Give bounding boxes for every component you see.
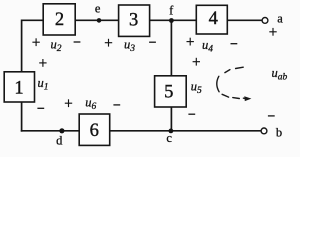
polarity - of u4 (231, 43, 238, 45)
polarity + of u1 (39, 62, 46, 64)
element box 4 (196, 5, 227, 34)
polarity - of u3 (149, 41, 156, 43)
polarity + of u2 (32, 41, 39, 43)
svg-text:4: 4 (209, 9, 218, 29)
polarity - of u5 (188, 113, 195, 115)
wire element 1 down to bottom rail (21, 102, 23, 131)
svg-text:c: c (166, 131, 172, 145)
wire element 2 to element 3 through node e (75, 19, 118, 21)
element box 6 (79, 114, 110, 145)
node e junction dot (97, 18, 102, 23)
terminal b open circle (261, 128, 267, 134)
wire element 6 to terminal b through node c (110, 130, 262, 132)
svg-text:d: d (56, 133, 63, 147)
polarity - of u6 (113, 104, 120, 106)
wire top-left corner to element 2 (22, 20, 44, 72)
polarity + of u6 (65, 102, 72, 104)
svg-text:5: 5 (164, 82, 173, 102)
wire bottom rail d to element 6 (22, 130, 80, 132)
svg-text:6: 6 (90, 121, 99, 141)
node f junction dot (169, 18, 174, 23)
polarity + of u4 (187, 41, 194, 43)
element box 2 (43, 4, 75, 35)
dashed arrow of voltage uab (217, 67, 246, 98)
polarity - of u2 (74, 41, 81, 43)
polarity + of terminal a (269, 31, 276, 33)
wire element 4 to terminal a (227, 19, 262, 21)
arrowhead of uab dashed arrow (244, 96, 251, 101)
polarity - of u1 (37, 107, 44, 109)
polarity + of u3 (105, 42, 112, 44)
svg-text:2: 2 (55, 10, 64, 30)
svg-text:b: b (276, 126, 282, 140)
polarity + of u5 (193, 61, 200, 63)
svg-text:a: a (277, 12, 283, 26)
wire element 5 down to node c (170, 107, 172, 131)
node d junction dot (59, 128, 64, 133)
wire element 3 to element 4 through node f (150, 19, 197, 21)
element box 3 (119, 5, 150, 36)
element box 5 (155, 76, 187, 107)
node c junction dot (169, 129, 174, 134)
svg-text:1: 1 (14, 78, 23, 98)
wire node f down to element 5 (170, 20, 172, 76)
element box 1 (4, 72, 34, 102)
terminal a open circle (262, 18, 268, 24)
polarity - of terminal b (268, 115, 275, 117)
svg-text:3: 3 (129, 11, 138, 31)
svg-text:e: e (95, 2, 101, 16)
